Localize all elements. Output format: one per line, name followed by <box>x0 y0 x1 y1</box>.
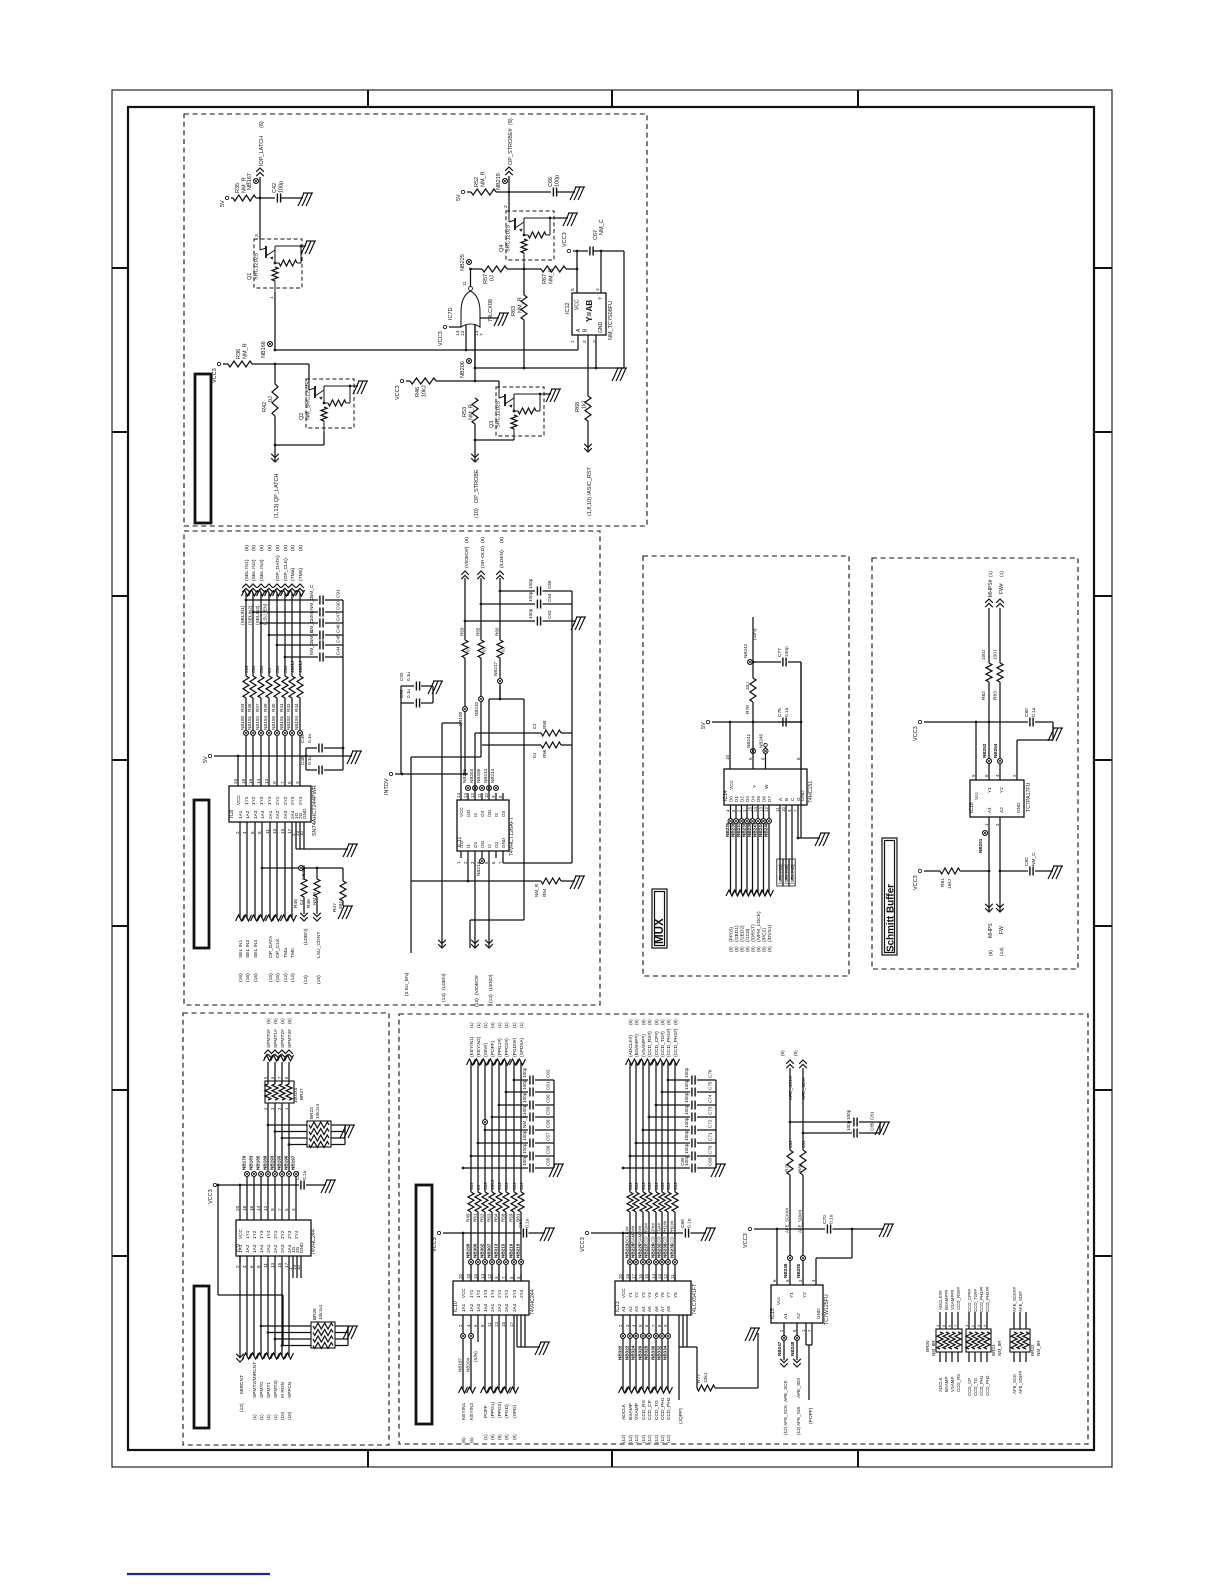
IC16 bottom pin wires <box>988 817 990 912</box>
capacitor C46 <box>269 634 318 636</box>
IC11 bottom wires <box>467 858 469 881</box>
svg-text:R49: R49 <box>466 1213 471 1222</box>
terminal VCC3 gate <box>443 325 446 328</box>
svg-text:R42: R42 <box>262 402 268 412</box>
svg-text:5V: 5V <box>220 200 226 207</box>
svg-text:R55: R55 <box>476 627 481 636</box>
svg-text:100kJ: 100kJ <box>290 661 295 673</box>
svg-text:7: 7 <box>277 1208 282 1211</box>
resistor R53 <box>472 398 478 424</box>
svg-text:VSAMP##: VSAMP## <box>638 1225 643 1246</box>
svg-text:(6): (6) <box>267 545 273 551</box>
svg-text:(13): (13) <box>474 998 480 1007</box>
svg-text:3: 3 <box>291 1208 296 1211</box>
capacitor C57 <box>478 1142 528 1144</box>
svg-text:(/1C8): (/1C8) <box>745 928 751 942</box>
svg-text:(1): (1) <box>988 571 994 577</box>
svg-text:(10): (10) <box>474 508 480 518</box>
svg-text:NB252: NB252 <box>982 743 987 758</box>
svg-text:33J: 33J <box>519 1183 524 1190</box>
svg-text:SPMT3): SPMT3) <box>273 1380 279 1398</box>
svg-text:NB197: NB197 <box>291 1155 296 1170</box>
svg-text:74VHCT126AFT: 74VHCT126AFT <box>509 816 515 856</box>
svg-text:M RGN: M RGN <box>280 1381 286 1398</box>
svg-text:C74: C74 <box>708 1094 713 1103</box>
svg-text:(13): (13) <box>441 993 447 1002</box>
IC11 74VHCT126AFT <box>457 800 509 851</box>
svg-text:(8): (8) <box>654 1019 659 1025</box>
svg-text:12: 12 <box>764 807 769 812</box>
IC10 OE pins to ground <box>516 1315 518 1347</box>
net IOP_LATCH connector <box>259 177 261 198</box>
svg-text:MIRCNT: MIRCNT <box>239 1375 245 1394</box>
svg-text:D7: D7 <box>767 796 772 802</box>
net ADCLK <box>622 1315 624 1390</box>
svg-text:Y5: Y5 <box>654 1292 659 1298</box>
svg-text:NB221: NB221 <box>625 1243 630 1258</box>
svg-text:R77: R77 <box>696 1374 702 1383</box>
svg-text:GND: GND <box>816 1308 822 1319</box>
svg-text:NB187: NB187 <box>458 1357 463 1372</box>
svg-text:NB167: NB167 <box>247 173 253 190</box>
svg-text:VCC: VCC <box>729 779 735 790</box>
capacitor C65 <box>500 590 535 592</box>
svg-text:CCD_TG: CCD_TG <box>654 1400 660 1420</box>
svg-text:Q2: Q2 <box>299 413 305 420</box>
svg-text:(13): (13) <box>303 975 309 984</box>
svg-text:(12): (12) <box>654 1434 659 1443</box>
svg-text:18: 18 <box>242 1205 247 1211</box>
svg-text:2Y3: 2Y3 <box>290 796 296 805</box>
wire Q4 to node line <box>523 264 525 269</box>
svg-text:NB186: NB186 <box>271 715 276 730</box>
svg-text:NB242: NB242 <box>743 643 748 658</box>
svg-text:CCD_CP: CCD_CP <box>647 1400 653 1420</box>
svg-text:NM_R: NM_R <box>312 891 317 905</box>
svg-text:2A3: 2A3 <box>283 810 289 819</box>
net MHPS# connector <box>985 599 993 607</box>
svg-text:NB243: NB243 <box>753 822 758 837</box>
IC9 bottom lines <box>239 1256 241 1358</box>
svg-text:CCD_PH2: CCD_PH2 <box>985 1375 990 1396</box>
resistor R52 <box>467 191 471 193</box>
svg-text:17: 17 <box>284 1262 289 1268</box>
resistor array BR27 100Jx4 <box>265 1081 294 1103</box>
inner border frame <box>128 107 1094 1450</box>
svg-text:R57: R57 <box>483 274 489 284</box>
svg-text:1A1: 1A1 <box>461 1303 466 1312</box>
svg-text:R36: R36 <box>247 703 252 712</box>
gate input pins <box>465 325 467 350</box>
svg-text:NM_R: NM_R <box>469 404 475 420</box>
svg-text:33J: 33J <box>801 1141 806 1148</box>
title bar section 6 <box>416 1185 432 1424</box>
svg-text:1Y2: 1Y2 <box>252 1230 258 1239</box>
IC15 pin wires <box>776 1229 778 1285</box>
svg-text:C65: C65 <box>547 580 552 589</box>
capacitor C75 <box>662 1091 690 1093</box>
svg-text:(5): (5) <box>266 1018 271 1024</box>
capacitor C72 <box>643 1129 690 1131</box>
svg-text:[SEL IN2]: [SEL IN2] <box>784 864 789 884</box>
svg-text:Y1: Y1 <box>789 1292 795 1298</box>
net BSAMP <box>629 1315 631 1390</box>
IC11 wire web right <box>475 732 541 734</box>
svg-text:(3.5U_EN): (3.5U_EN) <box>404 972 410 996</box>
resistor R35 <box>231 197 233 199</box>
svg-text:8: 8 <box>257 831 262 834</box>
svg-text:I4: I4 <box>473 813 478 817</box>
svg-text:(5): (5) <box>290 545 296 551</box>
svg-text:R35: R35 <box>235 183 241 193</box>
svg-text:NM_8R: NM_8R <box>1036 1340 1041 1356</box>
svg-text:GND: GND <box>1016 802 1022 813</box>
svg-text:NB218: NB218 <box>516 1243 521 1258</box>
terminal VCC3 IC10 <box>437 1231 440 1234</box>
junction NB249 <box>788 1256 793 1261</box>
svg-text:2Y4: 2Y4 <box>298 796 304 805</box>
wire collector Q1 <box>259 198 261 239</box>
svg-text:Y2: Y2 <box>999 787 1005 793</box>
svg-text:CCD_CP: CCD_CP <box>967 1378 972 1396</box>
svg-text:(BSAMP#): (BSAMP#) <box>634 1034 640 1057</box>
svg-text:(8): (8) <box>480 537 486 543</box>
svg-text:(8): (8) <box>641 1019 646 1025</box>
frame tick marks <box>367 90 369 107</box>
svg-text:Y7: Y7 <box>666 1292 671 1298</box>
svg-text:CCD_TG##: CCD_TG## <box>657 1223 662 1246</box>
svg-text:SEL IN1: SEL IN1 <box>238 940 244 958</box>
net ASIC_RST connector <box>584 444 592 452</box>
svg-text:(8): (8) <box>767 946 772 952</box>
svg-text:16: 16 <box>248 778 253 784</box>
svg-text:A1: A1 <box>621 1306 626 1312</box>
junction NB245 <box>763 749 768 754</box>
svg-text:(13): (13) <box>488 994 494 1003</box>
svg-text:NB332: NB332 <box>657 1345 662 1360</box>
svg-text:C42: C42 <box>272 183 278 193</box>
wire right bus to ground <box>623 251 625 368</box>
ground for C42 <box>298 193 313 206</box>
resistor R46 <box>406 380 410 382</box>
IC14 74HC151 <box>724 769 807 805</box>
svg-text:10kJx4: 10kJx4 <box>318 1305 324 1320</box>
svg-text:R58: R58 <box>542 720 547 729</box>
svg-text:16: 16 <box>725 755 730 760</box>
MUX right bus to ground <box>800 662 802 838</box>
svg-text:100p: 100p <box>846 1120 851 1131</box>
svg-text:15: 15 <box>277 1262 282 1268</box>
svg-text:Q1: Q1 <box>247 273 253 280</box>
svg-text:SPMT0#: SPMT0# <box>266 1029 272 1048</box>
svg-text:C62: C62 <box>546 1069 551 1078</box>
svg-text:C66: C66 <box>548 177 554 187</box>
svg-text:VSAMP: VSAMP <box>950 1377 955 1392</box>
svg-text:2A4: 2A4 <box>512 1303 517 1312</box>
svg-text:NB254: NB254 <box>993 743 998 758</box>
svg-text:NB227: NB227 <box>644 1243 649 1258</box>
title bar section 1 <box>195 374 211 523</box>
svg-text:13: 13 <box>463 793 468 798</box>
capacitor C81 <box>790 1121 852 1123</box>
svg-text:5: 5 <box>287 781 292 784</box>
wire to C66 <box>509 191 551 193</box>
svg-text:(S/N): (S/N) <box>473 1351 478 1362</box>
svg-text:2Y3: 2Y3 <box>287 1230 293 1239</box>
svg-text:SPMT1: SPMT1 <box>266 1382 272 1398</box>
svg-text:14: 14 <box>256 778 261 784</box>
svg-text:1A3: 1A3 <box>252 1244 258 1253</box>
cap bus to ground <box>571 591 573 621</box>
svg-text:(6): (6) <box>259 121 265 128</box>
svg-text:C44: C44 <box>336 646 342 655</box>
svg-text:NB212: NB212 <box>476 861 481 876</box>
svg-text:A2: A2 <box>999 807 1005 813</box>
svg-text:SPFCN: SPFCN <box>287 1381 293 1398</box>
svg-text:1: 1 <box>570 340 576 343</box>
svg-text:NB198: NB198 <box>466 1243 471 1258</box>
svg-text:100p: 100p <box>555 175 561 187</box>
svg-text:(/DRST): (/DRST) <box>751 924 757 942</box>
svg-text:100J: 100J <box>490 1180 495 1190</box>
svg-text:14: 14 <box>651 1274 656 1279</box>
svg-text:NB251: NB251 <box>978 838 983 853</box>
svg-text:OP_DATA: OP_DATA <box>268 935 274 958</box>
svg-text:7: 7 <box>479 333 485 336</box>
svg-text:BR23: BR23 <box>309 1107 315 1119</box>
svg-text:NB322: NB322 <box>625 1345 630 1360</box>
svg-text:GND: GND <box>501 837 506 848</box>
svg-text:100kJ: 100kJ <box>298 661 303 673</box>
svg-text:(1): (1) <box>259 1414 264 1420</box>
svg-text:4: 4 <box>595 288 601 291</box>
svg-text:A5: A5 <box>647 1306 652 1312</box>
svg-text:1kJ: 1kJ <box>582 400 588 409</box>
svg-text:(SELIN1): (SELIN1) <box>240 605 246 625</box>
svg-text:C48: C48 <box>300 756 306 765</box>
svg-text:O1: O1 <box>473 841 478 848</box>
svg-text:(1): (1) <box>469 1022 474 1028</box>
svg-text:0J: 0J <box>476 1185 481 1190</box>
svg-text:NB328: NB328 <box>644 1345 649 1360</box>
svg-text:12: 12 <box>263 1205 268 1211</box>
svg-text:SPMT3#: SPMT3# <box>287 1029 293 1048</box>
svg-text:A1: A1 <box>783 1313 789 1319</box>
svg-text:NB195: NB195 <box>277 1155 282 1170</box>
svg-text:R82: R82 <box>981 691 987 700</box>
svg-text:NB231: NB231 <box>657 1243 662 1258</box>
svg-text:12: 12 <box>460 330 466 336</box>
svg-text:R54: R54 <box>494 1213 499 1222</box>
svg-text:15: 15 <box>501 1322 506 1327</box>
svg-text:(8): (8) <box>745 946 750 952</box>
svg-text:(VSAMP#): (VSAMP#) <box>641 1034 647 1057</box>
svg-text:NB191: NB191 <box>279 715 284 730</box>
svg-text:0J: 0J <box>466 647 471 652</box>
svg-text:C90: C90 <box>336 601 342 610</box>
svg-text:100p: 100p <box>684 1067 689 1078</box>
GND pin 2 route <box>1016 740 1018 780</box>
svg-text:18: 18 <box>466 1274 471 1279</box>
svg-text:(6): (6) <box>461 1437 466 1443</box>
svg-text:/3G: /3G <box>487 809 492 817</box>
svg-text:0J: 0J <box>490 275 496 281</box>
svg-text:2: 2 <box>235 831 240 834</box>
capacitor C73 <box>649 1116 690 1118</box>
svg-text:BSAMP##: BSAMP## <box>631 1225 636 1246</box>
svg-text:(12): (12) <box>290 973 296 982</box>
svg-text:100p: 100p <box>846 1109 851 1120</box>
net OP_STROBE connector <box>471 454 479 462</box>
svg-text:NB183: NB183 <box>249 1155 254 1170</box>
svg-text:100p: 100p <box>309 610 315 621</box>
capacitor C43 <box>300 1181 302 1190</box>
svg-text:(PP03): (PP03) <box>729 927 735 942</box>
svg-text:CCD_TG##: CCD_TG## <box>973 1289 978 1312</box>
resistor R55 <box>477 571 485 579</box>
svg-text:33J: 33J <box>654 1183 659 1190</box>
svg-text:33J: 33J <box>666 1183 671 1190</box>
svg-text:D5: D5 <box>756 796 761 802</box>
svg-text:VCC3: VCC3 <box>432 1237 438 1252</box>
signal lines above IC9 <box>246 1177 248 1213</box>
svg-text:(15): (15) <box>275 973 281 982</box>
svg-text:R53: R53 <box>487 1213 492 1222</box>
resistor R74 net (CCD_TG#) <box>661 1062 663 1192</box>
svg-text:NB300: NB300 <box>473 1243 478 1258</box>
svg-text:(8): (8) <box>780 1050 785 1056</box>
svg-text:IC8: IC8 <box>229 810 235 818</box>
svg-text:(8): (8) <box>740 946 745 952</box>
svg-text:(5): (5) <box>280 1018 285 1024</box>
svg-text:I1: I1 <box>466 844 471 848</box>
capacitor C55 <box>463 1167 528 1169</box>
resistor R51 net (KEYIN2) <box>477 1062 479 1192</box>
svg-text:NM_C: NM_C <box>599 219 605 235</box>
svg-text:(POFF): (POFF) <box>490 1041 496 1057</box>
svg-text:(PGD): (PGD) <box>504 1404 510 1418</box>
svg-text:100p: 100p <box>684 1079 689 1090</box>
svg-text:100p: 100p <box>528 608 533 619</box>
svg-text:(/VFM_LOCK): (/VFM_LOCK) <box>756 911 762 942</box>
svg-text:C58: C58 <box>546 1119 551 1128</box>
svg-text:(10): (10) <box>280 1411 285 1420</box>
svg-text:(12): (12) <box>660 1434 665 1443</box>
svg-text:C57: C57 <box>546 1132 551 1141</box>
svg-text:17: 17 <box>287 828 292 834</box>
terminal INTDV <box>389 772 392 775</box>
svg-text:BR27: BR27 <box>299 1088 305 1100</box>
svg-text:(CCD_CP#): (CCD_CP#) <box>654 1031 660 1057</box>
node NB167 <box>259 197 262 200</box>
svg-text:33J: 33J <box>628 1183 633 1190</box>
svg-text:VSAMP: VSAMP <box>634 1403 640 1420</box>
svg-text:CCD_PH2##: CCD_PH2## <box>985 1286 990 1312</box>
svg-text:2Y4: 2Y4 <box>294 1230 300 1239</box>
IC10 74VHC244 <box>453 1281 529 1315</box>
svg-text:(12): (12) <box>641 1434 646 1443</box>
svg-text:CCD_RS: CCD_RS <box>641 1400 647 1420</box>
svg-text:(SEL IN3): (SEL IN3) <box>259 559 265 581</box>
capacitor C70b <box>630 1155 690 1157</box>
resistor R53 net (POFF) <box>491 1062 493 1192</box>
capacitor C70 <box>826 1225 828 1234</box>
svg-text:2Y2: 2Y2 <box>283 796 289 805</box>
svg-text:18: 18 <box>625 1274 630 1279</box>
svg-text:R83: R83 <box>993 691 999 700</box>
svg-text:7: 7 <box>280 781 285 784</box>
svg-text:SRC12025: SRC12025 <box>496 401 502 428</box>
junction NB254 <box>998 759 1003 764</box>
svg-text:0.1u: 0.1u <box>784 707 790 717</box>
caps C92 C93 <box>400 686 402 774</box>
svg-text:[SEL IN3]: [SEL IN3] <box>790 864 795 884</box>
resistor R78 <box>752 666 754 678</box>
svg-text:I2: I2 <box>487 844 492 848</box>
svg-text:2Y1: 2Y1 <box>275 796 281 805</box>
power terminal 5V (left) <box>225 196 228 199</box>
resistor array BR32 NM_8R <box>1010 1329 1030 1352</box>
svg-text:A8: A8 <box>666 1306 671 1312</box>
svg-text:0J: 0J <box>532 753 537 758</box>
svg-text:NB184: NB184 <box>263 715 268 730</box>
svg-text:100p: 100p <box>522 1104 527 1115</box>
svg-text:(OP_CLK): (OP_CLK) <box>283 558 289 581</box>
svg-text:D2: D2 <box>740 796 745 802</box>
svg-text:C47: C47 <box>336 612 342 621</box>
svg-text:33J: 33J <box>634 1183 639 1190</box>
svg-text:CCD_RS##: CCD_RS## <box>644 1223 649 1246</box>
svg-text:7: 7 <box>953 1325 958 1327</box>
svg-text:2A3: 2A3 <box>504 1303 509 1312</box>
svg-text:10: 10 <box>781 807 786 812</box>
svg-text:(LEND): (LEND) <box>488 974 494 991</box>
svg-text:(15): (15) <box>268 973 274 982</box>
svg-text:(POPF): (POPF) <box>808 1407 814 1424</box>
capacitor C76 <box>778 721 781 723</box>
svg-text:C92: C92 <box>399 689 404 698</box>
svg-text:Y2: Y2 <box>634 1292 639 1298</box>
capacitor C82 <box>1029 867 1031 876</box>
svg-text:BSAMP: BSAMP <box>628 1403 634 1420</box>
svg-text:100p: 100p <box>522 1155 527 1166</box>
svg-text:/1G: /1G <box>459 840 464 848</box>
svg-text:KEYIN1: KEYIN1 <box>461 1403 467 1420</box>
svg-text:(15): (15) <box>316 975 322 984</box>
svg-text:ADCLK: ADCLK <box>621 1403 627 1420</box>
svg-text:(1): (1) <box>252 1414 257 1420</box>
power terminal 5V rail <box>208 754 211 757</box>
svg-text:10: 10 <box>296 1265 301 1270</box>
svg-text:SPMT2#: SPMT2# <box>280 1029 286 1048</box>
svg-text:100J: 100J <box>993 649 999 660</box>
svg-text:NB219: NB219 <box>496 173 502 190</box>
svg-text:17: 17 <box>631 1274 636 1279</box>
resistor R37 / junction NB182 <box>260 593 262 676</box>
svg-text:74HC151: 74HC151 <box>808 781 814 803</box>
svg-text:(1): (1) <box>497 1022 502 1028</box>
svg-text:NB235: NB235 <box>670 1243 675 1258</box>
capacitor C71 <box>636 1142 690 1144</box>
power terminal 5V (right) <box>461 190 464 193</box>
svg-text:100p: 100p <box>279 181 285 193</box>
ground for gate <box>480 317 499 319</box>
svg-text:NB189: NB189 <box>263 1155 268 1170</box>
resistor R54 row <box>411 880 541 882</box>
resistor R68 <box>587 390 589 396</box>
svg-text:VCC3: VCC3 <box>913 875 919 890</box>
svg-text:(1): (1) <box>512 1022 517 1028</box>
